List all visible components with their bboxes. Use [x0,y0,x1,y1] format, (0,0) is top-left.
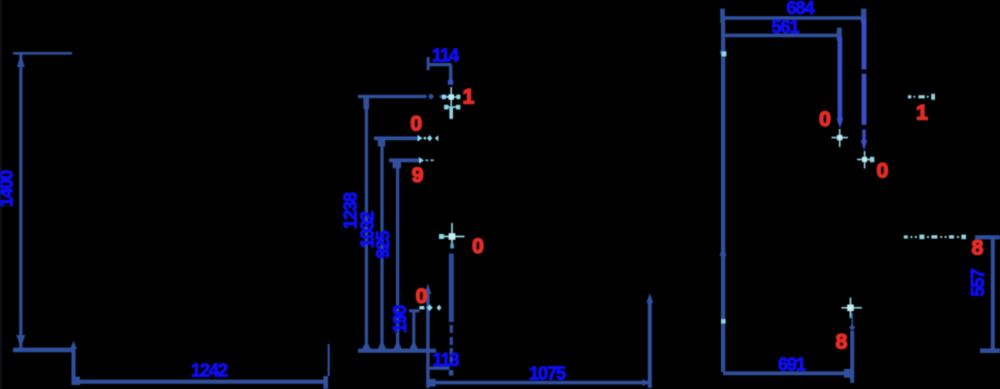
svg-text:114: 114 [432,46,459,66]
drop bar below centre point [449,254,454,323]
point marker crosshair B [857,151,873,169]
bottom dimension line 1242 [73,380,328,384]
svg-text:1: 1 [916,102,928,125]
dim 114 line [427,63,452,66]
cyan arrow right on dim line 2 [418,135,423,142]
foot tick of dim line 2 [378,138,385,147]
drop line from 684 dim [862,19,867,125]
svg-text:925: 925 [373,231,393,259]
right vertical dimension line [991,236,995,352]
bottom right dimension line 1075 [428,381,650,385]
svg-text:1075: 1075 [529,364,566,384]
cyan arrow right on dim line 3 [419,157,424,164]
svg-text:1242: 1242 [191,361,228,381]
point marker 1b below [444,106,460,108]
arrow widening mid [720,244,727,256]
baseline of middle group [358,349,436,353]
middle extension line 1 [365,96,368,350]
drop line from 561 dim [838,37,843,123]
mini dim 113 line [428,367,450,370]
svg-text:190: 190 [390,305,410,333]
dimension line 3 horizontal [389,158,420,162]
cyan dash-dot marker top right [908,94,935,100]
svg-text:0: 0 [410,113,422,136]
bottom left horizontal object line [13,348,75,353]
diamond dot above bar [849,324,855,331]
left tick of 114 [427,57,430,70]
cyan dash-dot marker mid right [904,235,966,240]
left vertical dimension line 1400 [19,54,22,348]
middle extension line 3 [396,160,399,351]
svg-text:1: 1 [463,86,475,109]
cyan dash-dot row y307 [419,306,424,309]
cyan dot lower on left line [721,319,726,324]
foot of ext line 4 [409,340,418,350]
point marker 1 crosshair [443,87,460,106]
left tick of 1242 dim [75,377,81,385]
drop line from 114 to point 1 [449,65,452,84]
svg-text:0: 0 [819,108,831,131]
thin line to crosshair [851,313,853,325]
diamond dot on dim line 1 [428,93,434,99]
arrow up top of left dim [17,54,25,67]
arrow up at corner [70,341,77,349]
svg-text:0: 0 [472,235,484,258]
vertical bar above 691 end [850,331,854,383]
left tick 684 [720,9,725,23]
dimension line 1 horizontal [358,95,427,98]
point marker crosshair C [842,298,863,318]
svg-text:561: 561 [771,17,799,37]
centre point marker crosshair [440,223,465,248]
svg-text:9: 9 [412,164,424,187]
corner vertical line [72,347,76,385]
arrow down bottom of left dim [16,335,25,348]
tick right of mini dim [449,370,454,376]
svg-text:691: 691 [778,355,806,375]
dim 561 line [724,34,840,38]
blue square on drop line [448,80,453,85]
right group: dim 684 line [722,16,866,20]
svg-text:0: 0 [416,285,428,308]
top tick of right dim [975,235,1000,239]
middle extension line 2 [380,138,383,350]
T-top of extension line 4 [409,309,420,312]
svg-text:557: 557 [968,269,988,297]
svg-text:8: 8 [836,331,848,354]
tick under dim line 1 [363,96,369,109]
right tick 561 [837,28,842,41]
bottom foot of right dim [980,348,1000,353]
left extension line top [13,52,72,55]
cyan dashes after dim line 3 [426,159,429,161]
foot of ext line 2 [378,340,387,350]
dimension line 2 horizontal [374,136,418,140]
arrow right end of 691 [844,369,851,378]
window edge line [0,0,2,389]
svg-text:684: 684 [786,0,814,18]
right arrow of 1075 dim [643,379,649,386]
middle extension line 4 [412,311,415,350]
middle extension line 5 with top arrow [426,290,429,388]
foot of ext line 1 [362,340,371,350]
left arrow block of 1075 dim [428,379,436,387]
right tick of 1242 dim [323,376,328,389]
foot tick of dim line 3 [393,160,401,168]
point marker crosshair A [832,129,849,147]
cyan dash-dot after dim line 2 [424,137,427,140]
arrow widening upper [720,42,727,54]
svg-text:8: 8 [972,237,984,260]
right tick 684 [861,9,866,23]
foot of ext line 3 [393,340,402,350]
svg-text:1400: 1400 [0,170,17,207]
bottom right dim 691 line [723,371,850,375]
right group left extension line [721,16,725,372]
right extension line of 1075 dim [648,298,652,388]
dash segment of dim line 1 [440,95,450,98]
svg-text:0: 0 [877,160,889,183]
cyan dot on left line [721,51,726,56]
right extension line of 1242 dim [328,344,330,376]
